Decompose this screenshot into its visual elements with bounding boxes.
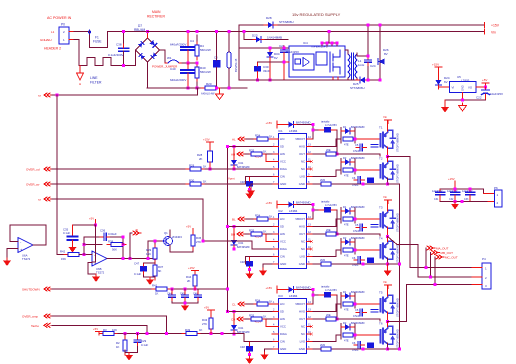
svg-text:640uF/200V: 640uF/200V	[170, 78, 186, 82]
svg-text:C22: C22	[476, 96, 482, 100]
svg-text:W1: W1	[167, 56, 172, 60]
svg-text:L1: L1	[51, 30, 55, 34]
svg-text:VI: VI	[452, 86, 455, 90]
caps C44 C45 C46	[171, 288, 174, 291]
svg-text:C31: C31	[434, 198, 439, 201]
bridge rectifier D7	[136, 38, 160, 62]
terminal Vin	[484, 29, 486, 34]
VIPer left pin	[284, 61, 289, 63]
svg-text:Tacho: Tacho	[31, 324, 39, 328]
svg-text:D28: D28	[266, 16, 272, 20]
wire L from P0 pin2 to bridge top rail	[74, 32, 148, 48]
op-amp U6A follower	[18, 238, 33, 253]
svg-text:1K: 1K	[155, 292, 159, 296]
svg-text:L6384: L6384	[289, 294, 298, 298]
svg-text:+5V: +5V	[186, 225, 191, 229]
wire +5V node to C35	[73, 224, 96, 226]
svg-text:STTA806U: STTA806U	[350, 86, 365, 90]
svg-text:MAIN: MAIN	[152, 10, 161, 14]
svg-text:BH: BH	[231, 233, 235, 237]
diode D25	[356, 77, 369, 83]
bridge top lead to rail	[147, 32, 149, 39]
bus bottom wire	[440, 200, 488, 202]
phase 3 wire to P4 pin3	[388, 285, 472, 322]
svg-text:IC2: IC2	[278, 209, 283, 213]
zener D22	[267, 48, 273, 61]
supply ground rail	[239, 79, 380, 81]
svg-text:R41: R41	[152, 284, 158, 288]
svg-text:OVER_av: OVER_av	[26, 183, 40, 187]
svg-text:2K: 2K	[199, 157, 203, 161]
driver block 1 (IC1 + T1/T2)	[231, 115, 400, 199]
svg-text:C47: C47	[134, 262, 140, 266]
svg-text:P0: P0	[61, 23, 65, 27]
svg-text:10K: 10K	[112, 328, 117, 332]
resistor R37	[153, 261, 157, 280]
svg-text:1K: 1K	[199, 328, 203, 332]
capacitor C29	[137, 334, 139, 338]
svg-text:R3: R3	[103, 328, 107, 332]
svg-text:R38: R38	[108, 240, 114, 244]
svg-text:+5V: +5V	[482, 78, 487, 82]
svg-text:15v REGULATED SUPPLY: 15v REGULATED SUPPLY	[292, 12, 341, 17]
svg-text:AL: AL	[232, 138, 236, 142]
bridge plus lead	[160, 50, 166, 63]
VIPer top pins	[322, 43, 337, 46]
svg-text:+5V: +5V	[89, 217, 94, 221]
phase 1 wire to P4 pin1	[388, 157, 472, 268]
output wire	[107, 258, 138, 260]
svg-text:8V: 8V	[384, 52, 388, 56]
ground under T4	[387, 264, 389, 268]
gnd wire	[445, 99, 486, 101]
svg-text:0.1uF: 0.1uF	[134, 272, 141, 276]
wire N from P0 pin1 through line filter	[74, 40, 136, 66]
zener D26	[379, 25, 381, 80]
svg-text:R49: R49	[185, 328, 191, 332]
VIPer bottom pins	[333, 77, 338, 80]
svg-text:AC POWER IN: AC POWER IN	[47, 16, 72, 20]
svg-text:SHUTDOWN: SHUTDOWN	[22, 288, 40, 292]
svg-text:C45: C45	[180, 293, 185, 296]
ground IC1	[251, 184, 272, 188]
svg-text:FILTER: FILTER	[90, 81, 102, 85]
input resistor R42	[57, 254, 64, 256]
svg-text:640uF/200V: 640uF/200V	[170, 43, 186, 47]
svg-text:BZW50-15: BZW50-15	[234, 58, 238, 72]
svg-text:+15V: +15V	[188, 266, 195, 270]
svg-text:C24: C24	[370, 64, 376, 68]
svg-text:R29: R29	[189, 164, 195, 168]
svg-text:T4: T4	[379, 237, 383, 241]
svg-text:Vin: Vin	[491, 31, 496, 35]
svg-text:56K/2W: 56K/2W	[200, 70, 211, 74]
svg-text:0.1uF: 0.1uF	[141, 343, 148, 347]
ground IC2	[263, 264, 272, 268]
svg-text:C4: C4	[190, 39, 194, 43]
svg-text:IC4: IC4	[303, 41, 308, 45]
svg-text:+15V: +15V	[432, 63, 439, 67]
svg-text:T3: T3	[379, 206, 383, 210]
svg-text:1N4148MB: 1N4148MB	[267, 36, 282, 40]
svg-text:15K: 15K	[146, 252, 151, 256]
net tap MB_OUT	[430, 253, 432, 278]
resistor R39	[153, 244, 157, 263]
earth ground H	[79, 66, 81, 74]
transformer L1	[348, 54, 350, 78]
svg-text:GND: GND	[462, 85, 465, 91]
svg-text:1K: 1K	[203, 180, 207, 184]
feedback C36	[84, 237, 100, 245]
capacitor C47	[140, 266, 147, 272]
SD bus vertical	[226, 147, 228, 312]
op-amp U6B	[92, 251, 107, 266]
svg-text:0.1uF/400V: 0.1uF/400V	[108, 53, 124, 57]
off-page J0 out	[129, 257, 132, 260]
ground solid under caps	[451, 201, 459, 209]
varistor RV1	[213, 60, 221, 68]
svg-text:T6: T6	[379, 322, 383, 326]
svg-text:+15V: +15V	[203, 138, 210, 142]
long vertical from xx to opamp	[56, 95, 58, 255]
svg-text:0.1uF: 0.1uF	[63, 231, 70, 235]
resistor R41	[152, 287, 171, 291]
svg-text:27K: 27K	[196, 240, 201, 244]
svg-text:OVER_ud: OVER_ud	[26, 168, 40, 172]
zener D24	[436, 76, 442, 89]
fuse F1	[89, 30, 91, 34]
bridge bottom lead to minus rail	[147, 62, 149, 88]
svg-text:RECTIFIER: RECTIFIER	[147, 15, 165, 19]
svg-text:LINE: LINE	[90, 76, 98, 80]
svg-text:TS272: TS272	[22, 257, 31, 261]
svg-text:Vpmt: Vpmt	[228, 176, 235, 180]
feedback R38	[84, 245, 102, 255]
svg-text:MA_OUT: MA_OUT	[436, 247, 449, 251]
svg-text:2N4403: 2N4403	[172, 235, 182, 239]
svg-text:6K: 6K	[158, 269, 162, 273]
wire row y48	[239, 47, 289, 49]
svg-text:R42: R42	[60, 250, 66, 254]
svg-text:L6384: L6384	[289, 209, 298, 213]
resistor R20 on rail	[201, 86, 220, 90]
svg-text:2K: 2K	[187, 279, 191, 283]
svg-text:GNH/EU: GNH/EU	[40, 38, 52, 42]
svg-text:xx: xx	[38, 198, 42, 202]
svg-text:10uF/25V: 10uF/25V	[490, 92, 503, 96]
svg-text:0.04uF: 0.04uF	[108, 232, 117, 236]
svg-text:+5V: +5V	[204, 306, 209, 310]
svg-text:+15V: +15V	[491, 24, 500, 28]
resistor R30	[186, 182, 205, 186]
wire main +rail	[147, 31, 485, 33]
svg-text:OVER_amp: OVER_amp	[22, 315, 38, 319]
svg-text:6V: 6V	[444, 80, 448, 84]
svg-text:C36: C36	[100, 229, 106, 233]
connector P0 HEADER 2	[59, 27, 69, 44]
wire DC minus rail	[147, 87, 247, 89]
svg-text:HEADER 2: HEADER 2	[44, 47, 61, 51]
svg-text:MC_OUT: MC_OUT	[445, 256, 458, 260]
svg-text:R30: R30	[189, 179, 195, 183]
wire 15V rail with D28	[239, 24, 485, 26]
resistor R2 1K to gnd	[124, 334, 126, 339]
capacitor C22	[485, 87, 487, 90]
opamp ground	[88, 263, 96, 275]
net tap MA_OUT	[425, 248, 427, 268]
svg-text:CH: CH	[231, 318, 235, 322]
ground IC3	[265, 349, 273, 352]
open power-earth triangle	[219, 88, 221, 92]
svg-text:AH: AH	[231, 153, 235, 157]
svg-text:C33: C33	[464, 198, 469, 201]
svg-text:xx: xx	[38, 94, 42, 98]
svg-text:33nF: 33nF	[263, 69, 270, 73]
svg-text:C44: C44	[167, 293, 172, 296]
svg-text:22uF/25V: 22uF/25V	[286, 50, 299, 54]
ground open	[459, 103, 467, 111]
svg-text:C46: C46	[193, 293, 198, 296]
svg-text:+5V: +5V	[93, 327, 98, 331]
wire +5V node down to opamp plus input	[92, 225, 96, 262]
svg-text:+15V: +15V	[448, 177, 455, 181]
transil Z1	[227, 52, 231, 68]
svg-text:T5: T5	[379, 291, 383, 295]
svg-text:RBU4M: RBU4M	[134, 28, 146, 32]
emitter bus wire	[388, 184, 400, 349]
terminal +15V	[484, 23, 486, 28]
svg-text:C38: C38	[116, 43, 122, 47]
svg-text:27K: 27K	[202, 322, 207, 326]
svg-text:T2: T2	[379, 157, 383, 161]
svg-text:1K: 1K	[203, 165, 207, 169]
svg-text:BL: BL	[232, 218, 236, 222]
resistor R45 pull-up	[192, 229, 194, 233]
transistor labels overlay T3..T6	[378, 126, 386, 326]
R40 series to CIN3	[182, 332, 201, 336]
svg-text:L6384: L6384	[289, 129, 298, 133]
resistor R29	[186, 167, 205, 171]
svg-text:AXIAL0.4W: AXIAL0.4W	[201, 92, 215, 96]
svg-text:C32: C32	[449, 198, 454, 201]
driver block 2 (IC2 + T3/T4)	[231, 195, 400, 279]
svg-text:6V: 6V	[274, 56, 278, 60]
resistor R4	[195, 41, 199, 60]
svg-text:R20: R20	[206, 82, 212, 86]
svg-text:FUSE: FUSE	[93, 40, 102, 44]
resistor R40	[195, 63, 199, 82]
svg-text:56K: 56K	[112, 248, 117, 252]
svg-text:1mH: 1mH	[358, 63, 364, 67]
svg-text:IC3: IC3	[278, 294, 283, 298]
svg-text:1K: 1K	[116, 345, 120, 349]
svg-text:STTA806U: STTA806U	[279, 20, 294, 24]
svg-text:TS272: TS272	[96, 271, 105, 275]
driver block 3 (IC3 + T5/T6)	[231, 280, 400, 364]
svg-text:MB_OUT: MB_OUT	[441, 251, 454, 255]
svg-text:C40: C40	[170, 67, 176, 71]
svg-text:15K: 15K	[61, 257, 66, 261]
phase 2 wire to P4 pin2	[388, 237, 472, 278]
wire to block2 CIN	[245, 257, 272, 265]
svg-text:D23: D23	[252, 34, 258, 38]
svg-text:IC1: IC1	[278, 129, 283, 133]
svg-text:P4: P4	[482, 257, 486, 261]
bus top wire	[440, 189, 484, 193]
svg-text:J0: J0	[135, 228, 138, 232]
svg-text:Q1: Q1	[164, 231, 168, 235]
capacitor C30	[254, 66, 261, 72]
svg-text:H: H	[79, 82, 81, 86]
cap C21	[367, 25, 369, 56]
svg-text:CL: CL	[232, 303, 236, 307]
net tap MC_OUT	[434, 257, 436, 285]
svg-text:T1: T1	[379, 126, 383, 130]
ground solid	[444, 100, 446, 105]
junction	[122, 30, 125, 33]
svg-text:56K/2W: 56K/2W	[200, 48, 211, 52]
